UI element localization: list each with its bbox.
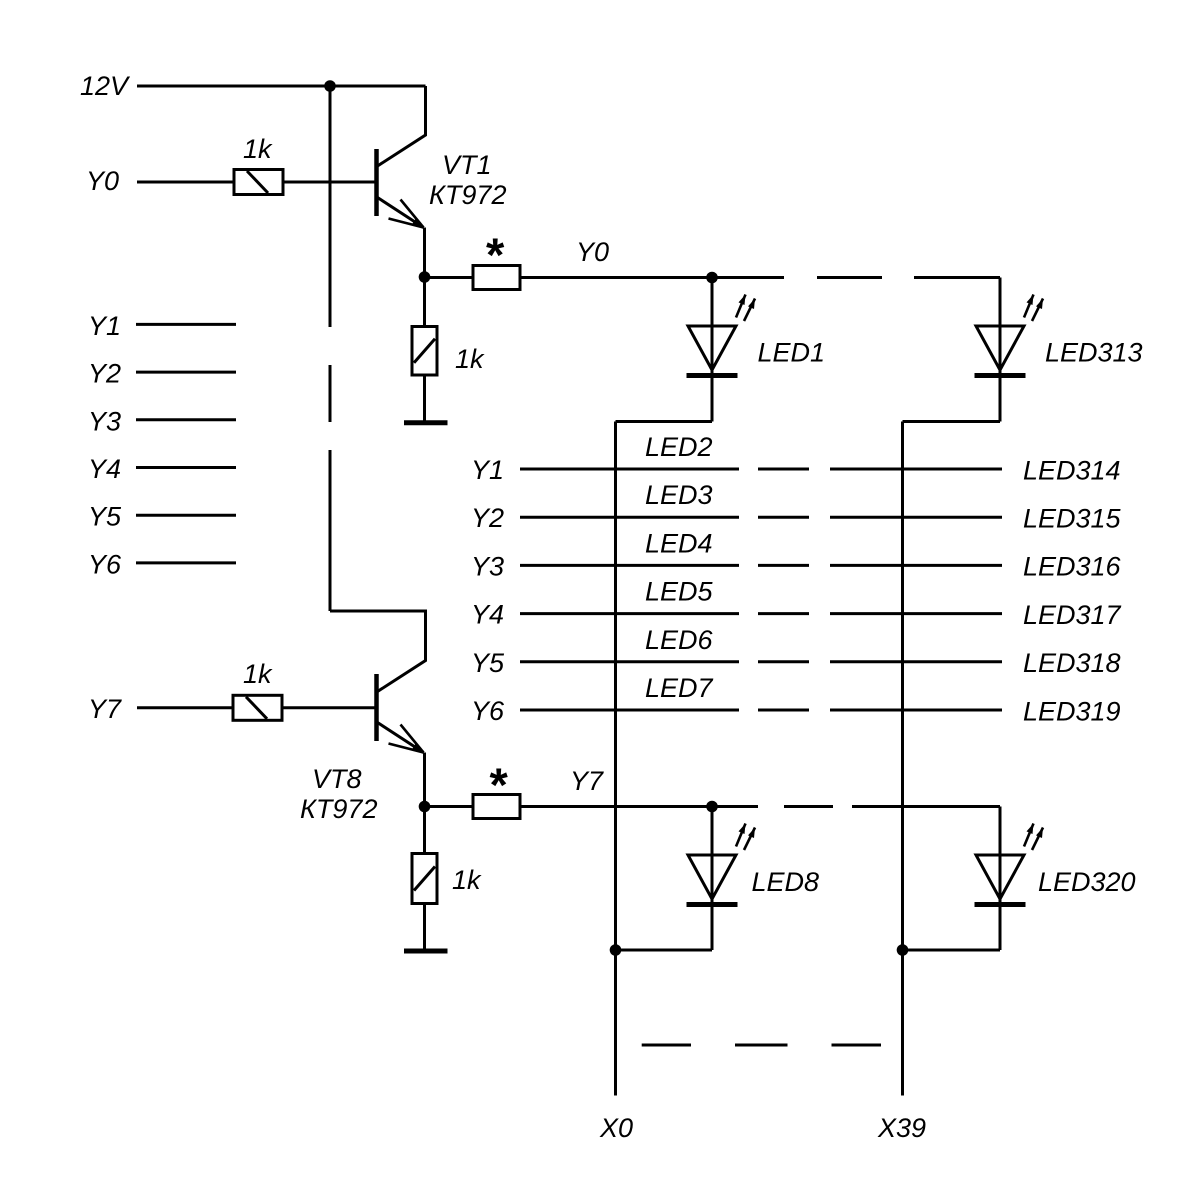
node junction X39/LED320	[897, 944, 909, 956]
transistor VT8 KT972	[300, 611, 426, 824]
wire resistor to VT8 base	[282, 706, 375, 709]
svg-text:КТ972: КТ972	[429, 180, 506, 210]
svg-text:КТ972: КТ972	[300, 794, 377, 824]
resistor 1k (VT1 base)	[234, 134, 283, 195]
svg-text:Y1: Y1	[471, 455, 504, 485]
svg-text:LED7: LED7	[645, 673, 714, 703]
svg-text:Y5: Y5	[471, 648, 505, 678]
input Y1 stub	[88, 311, 236, 341]
svg-text:LED315: LED315	[1023, 504, 1122, 534]
net row Y6 (LED7 / LED319)	[471, 673, 1121, 726]
svg-text:12V: 12V	[80, 71, 131, 101]
wire Y7 row to LED320	[852, 805, 1000, 808]
svg-text:*: *	[486, 228, 505, 281]
svg-text:LED2: LED2	[645, 432, 713, 462]
ground (VT1)	[404, 375, 448, 423]
wire node to star resistor	[425, 276, 474, 279]
resistor * (Y7 series)	[473, 758, 520, 819]
svg-text:1k: 1k	[243, 659, 273, 689]
wire column X39	[901, 422, 904, 1096]
svg-text:Y1: Y1	[88, 311, 121, 341]
svg-text:LED320: LED320	[1038, 867, 1136, 897]
wire Y0 row to LED313	[914, 276, 1000, 279]
svg-text:X0: X0	[599, 1113, 633, 1143]
input Y3 stub	[88, 406, 236, 436]
net row Y3 (LED4 / LED316)	[471, 528, 1122, 581]
svg-text:LED6: LED6	[645, 625, 714, 655]
svg-text:Y2: Y2	[88, 359, 121, 389]
LED LED8	[687, 807, 756, 951]
LED LED320	[975, 807, 1044, 951]
wire Y7 input	[137, 706, 233, 709]
svg-text:Y2: Y2	[471, 503, 504, 533]
svg-text:Y6: Y6	[88, 549, 122, 579]
wire Y7 row solid	[520, 805, 758, 808]
svg-text:X39: X39	[877, 1113, 926, 1143]
wire LED313 cathode step	[903, 420, 1001, 423]
wire node to star resistor (bottom)	[425, 805, 474, 808]
wire bottom continuation dashes	[642, 1044, 881, 1047]
wire Y0 row solid	[520, 276, 784, 279]
svg-text:LED3: LED3	[645, 480, 713, 510]
svg-text:Y3: Y3	[471, 551, 504, 581]
svg-text:Y3: Y3	[88, 406, 121, 436]
node VT8 emitter junction	[419, 801, 431, 813]
wire dashed column bus x=330	[329, 86, 332, 611]
svg-text:Y0: Y0	[576, 237, 609, 267]
net row Y4 (LED5 / LED317)	[471, 577, 1122, 630]
wire VT8 emitter to node	[423, 753, 426, 807]
svg-text:1k: 1k	[452, 865, 482, 895]
svg-text:LED318: LED318	[1023, 648, 1121, 678]
svg-text:Y6: Y6	[471, 696, 505, 726]
input Y2 stub	[88, 359, 236, 389]
svg-text:1k: 1k	[455, 344, 485, 374]
resistor 1k (VT1 pulldown)	[412, 277, 485, 375]
node junction on 12V rail	[324, 80, 336, 92]
ground (VT8)	[404, 904, 448, 952]
node VT1 emitter junction	[419, 271, 431, 283]
svg-text:LED319: LED319	[1023, 696, 1121, 726]
wire column X0	[614, 422, 617, 1096]
svg-text:LED4: LED4	[645, 528, 713, 558]
svg-text:Y7: Y7	[570, 766, 604, 796]
svg-text:LED317: LED317	[1023, 600, 1122, 630]
net row Y5 (LED6 / LED318)	[471, 625, 1121, 678]
svg-text:LED5: LED5	[645, 577, 714, 607]
wire LED8 cathode step	[616, 949, 713, 952]
svg-text:Y4: Y4	[88, 454, 121, 484]
svg-text:Y7: Y7	[88, 694, 122, 724]
svg-text:*: *	[490, 758, 509, 811]
node junction Y7/LED8	[706, 801, 718, 813]
node junction Y0/LED1	[706, 272, 718, 284]
net row Y2 (LED3 / LED315)	[471, 480, 1122, 533]
svg-text:LED313: LED313	[1045, 338, 1143, 368]
resistor 1k (VT8 pulldown)	[412, 807, 482, 904]
wire LED1 cathode step	[616, 420, 713, 423]
svg-text:VT8: VT8	[312, 764, 362, 794]
svg-text:VT1: VT1	[442, 150, 492, 180]
transistor VT1 KT972	[377, 86, 507, 228]
resistor * (Y0 series)	[473, 228, 520, 290]
wire LED320 cathode step	[903, 949, 1001, 952]
input Y5 stub	[88, 502, 236, 532]
svg-text:LED316: LED316	[1023, 552, 1122, 582]
wire Y0 input	[137, 181, 234, 184]
input Y6 stub	[88, 549, 236, 579]
wire 12V rail	[137, 85, 426, 88]
LED LED1	[687, 278, 756, 422]
svg-text:LED8: LED8	[752, 867, 820, 897]
wire Y0 row dash	[817, 276, 882, 279]
svg-text:Y5: Y5	[88, 502, 122, 532]
resistor 1k (VT8 base)	[233, 659, 282, 720]
wire Y7 row dash	[784, 805, 833, 808]
wire VT1 emitter to node	[423, 228, 426, 278]
node junction X0/LED8	[610, 944, 622, 956]
svg-text:LED1: LED1	[758, 338, 826, 368]
svg-text:1k: 1k	[243, 134, 273, 164]
input Y4 stub	[88, 454, 236, 484]
net row Y1 (LED2 / LED314)	[471, 432, 1121, 485]
LED LED313	[975, 278, 1044, 422]
wire resistor to VT1 base	[283, 181, 375, 184]
svg-text:Y0: Y0	[86, 166, 119, 196]
svg-text:Y4: Y4	[471, 600, 504, 630]
svg-text:LED314: LED314	[1023, 455, 1121, 485]
